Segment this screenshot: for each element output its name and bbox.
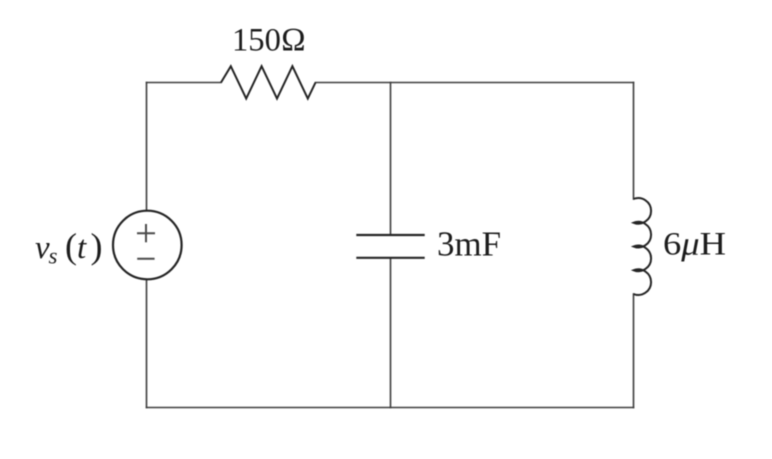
svg-text:150Ω: 150Ω <box>232 23 306 59</box>
svg-text:6μH: 6μH <box>663 227 726 263</box>
svg-text:vs(t): vs(t) <box>35 226 103 269</box>
svg-text:3mF: 3mF <box>437 225 501 264</box>
